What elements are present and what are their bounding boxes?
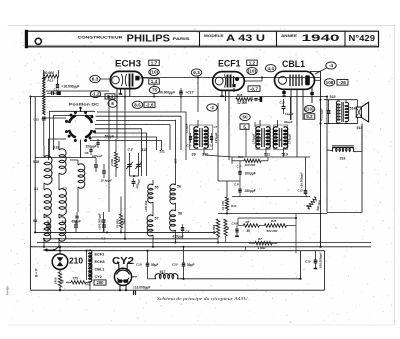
coil 55 <box>148 184 153 203</box>
resistor R10b <box>224 219 227 236</box>
svg-text:C11: C11 <box>257 137 262 141</box>
svg-text:56: 56 <box>177 185 181 189</box>
svg-text:125μμF: 125μμF <box>214 132 218 143</box>
svg-text:C23: C23 <box>208 144 213 148</box>
svg-text:ECH3: ECH3 <box>115 58 141 68</box>
svg-text:(10): (10) <box>150 70 159 75</box>
svg-text:479μμF: 479μμF <box>172 235 185 239</box>
wire <box>34 97 36 233</box>
value box -26 <box>337 80 348 86</box>
svg-text:≡18.000μμF: ≡18.000μμF <box>300 172 304 188</box>
heater dropper wire <box>43 78 45 115</box>
svg-text:(10): (10) <box>248 69 257 74</box>
capacitor C12 <box>56 84 59 86</box>
svg-text:1,2: 1,2 <box>249 60 256 65</box>
svg-text:250μμF: 250μμF <box>245 189 256 193</box>
wire <box>326 97 328 151</box>
svg-text:70 000: 70 000 <box>116 219 120 228</box>
heater winding ECF1 <box>89 250 92 259</box>
svg-text:210: 210 <box>69 257 84 266</box>
resistor 70000 <box>119 214 122 228</box>
svg-text:ECH3: ECH3 <box>95 260 105 264</box>
svg-text:510: 510 <box>282 153 288 157</box>
svg-text:30μμF: 30μμF <box>284 120 293 124</box>
svg-text:S2: S2 <box>63 187 67 191</box>
capacitor 10000uuF <box>102 170 106 172</box>
svg-text:MODELE: MODELE <box>204 34 225 38</box>
output transformer 514 primary <box>336 101 340 123</box>
capacitor <box>46 224 50 226</box>
svg-text:(10): (10) <box>305 107 314 112</box>
svg-text:N°429: N°429 <box>349 34 376 43</box>
wire <box>30 247 32 290</box>
resistor R14 2M <box>114 152 117 168</box>
output transformer 514 secondary <box>345 102 349 121</box>
tube CBL1 anode <box>305 75 310 85</box>
svg-text:10.4μμF: 10.4μμF <box>101 179 112 183</box>
choke 316 <box>332 147 353 151</box>
wire <box>259 120 261 128</box>
svg-text:C.P: C.P <box>237 165 242 169</box>
wire <box>205 155 232 157</box>
capacitor C8 <box>181 227 184 229</box>
wire <box>116 110 118 139</box>
svg-text:R16: R16 <box>237 93 243 97</box>
resistor R10 <box>225 197 228 210</box>
resistor R7 <box>255 241 272 245</box>
svg-text:R7: R7 <box>258 237 262 241</box>
svg-text:C10: C10 <box>277 138 282 142</box>
resistor R13 <box>44 75 59 79</box>
value box 200 <box>94 280 106 285</box>
value box -2,6 <box>144 102 155 108</box>
wire bus <box>31 289 325 291</box>
wire <box>95 129 142 176</box>
wire <box>232 156 310 158</box>
svg-text:510: 510 <box>142 148 148 152</box>
svg-text:R13: R13 <box>48 79 54 83</box>
mains arrow and switch <box>46 249 54 251</box>
wire <box>218 213 327 215</box>
svg-text:75: 75 <box>152 88 158 93</box>
trimmer capacitor <box>127 164 131 166</box>
wire <box>43 70 45 76</box>
wire <box>130 175 139 177</box>
coil S4 <box>59 217 66 241</box>
svg-text:6,3: 6,3 <box>92 77 99 82</box>
wire <box>357 100 359 107</box>
tube ECH3 anode <box>135 76 139 81</box>
value box -0,7 <box>248 86 260 92</box>
tube ECH3 grids <box>122 74 123 86</box>
IF transformer 511 <box>256 125 270 150</box>
capacitor <box>102 224 106 226</box>
svg-text:-4: -4 <box>329 63 334 68</box>
capacitor <box>96 142 99 144</box>
svg-text:514: 514 <box>350 106 356 110</box>
junction dots <box>108 95 110 97</box>
tube ECH3 cathode <box>112 76 120 84</box>
svg-text:CY2: CY2 <box>95 275 102 279</box>
svg-text:PARIS: PARIS <box>173 37 191 41</box>
lamp 210 <box>52 254 68 270</box>
svg-text:55: 55 <box>155 186 159 190</box>
wire <box>302 105 304 120</box>
wire <box>226 181 228 197</box>
wire <box>96 116 182 150</box>
tube CY2 envelope <box>114 268 131 285</box>
heater chain bracket <box>86 251 88 280</box>
wire <box>92 137 157 150</box>
wire <box>327 149 333 152</box>
svg-text:-26: -26 <box>339 80 346 85</box>
capacitor C17 <box>179 90 183 92</box>
title bar frame <box>27 31 379 47</box>
svg-text:32 000: 32 000 <box>237 101 247 105</box>
svg-text:S1: S1 <box>34 187 38 191</box>
capacitor 4000uuF <box>327 110 331 112</box>
value circle 10 <box>149 68 159 75</box>
wire <box>152 180 154 185</box>
wire <box>232 160 244 162</box>
svg-text:S4: S4 <box>62 220 66 224</box>
svg-text:ANNEE: ANNEE <box>281 34 298 38</box>
svg-text:R10: R10 <box>231 204 237 208</box>
svg-text:1,4: 1,4 <box>107 94 114 99</box>
capacitor C13 <box>51 92 53 95</box>
wire <box>148 278 157 280</box>
value circle -4 <box>326 62 336 69</box>
value circle -2 <box>207 104 217 111</box>
wire <box>66 281 71 283</box>
value circle -1,2 <box>90 90 100 97</box>
tube ECH3 pins <box>120 89 122 94</box>
coil S18 <box>44 156 52 185</box>
svg-text:C.9: C.9 <box>101 237 106 241</box>
svg-text:C20: C20 <box>172 262 178 266</box>
wire <box>361 124 363 152</box>
wire <box>324 99 358 101</box>
coil 56 <box>170 184 176 204</box>
wire bus <box>46 250 325 252</box>
wire <box>124 110 126 239</box>
wire <box>94 133 147 176</box>
svg-text:C.3: C.3 <box>128 147 133 151</box>
value box 1,7 <box>149 60 160 65</box>
band switch stem <box>80 108 82 113</box>
band switch rotor <box>69 116 76 124</box>
tube CBL1 cathode <box>279 76 287 84</box>
coil 58 <box>170 210 176 231</box>
coil S1 <box>44 189 51 216</box>
svg-text:CBL1: CBL1 <box>282 59 305 69</box>
svg-text:175μμF: 175μμF <box>252 133 256 144</box>
wire <box>90 141 162 151</box>
resistor R15 <box>264 224 286 228</box>
svg-text:B ≡ P: B ≡ P <box>35 268 39 277</box>
wire <box>197 120 199 128</box>
wire <box>31 96 328 98</box>
wire <box>300 251 302 279</box>
value circle 6,3 <box>191 69 201 76</box>
svg-text:CA5: CA5 <box>232 221 238 225</box>
svg-text:R6: R6 <box>246 220 250 224</box>
IF transformer S9/S10 <box>190 125 213 150</box>
svg-text:50μF: 50μF <box>187 263 194 267</box>
svg-text:10μμF: 10μμF <box>285 112 294 116</box>
wire <box>43 183 45 190</box>
wire <box>324 251 326 291</box>
wire bus <box>31 246 372 248</box>
svg-text:58: 58 <box>178 212 182 216</box>
band switch contacts <box>74 111 77 114</box>
value box 5 <box>240 124 249 129</box>
wire <box>245 128 247 157</box>
coil 57 <box>147 215 153 236</box>
svg-text:-1,2: -1,2 <box>92 92 100 97</box>
capacitor 100.000uuF <box>101 219 105 221</box>
svg-text:≡C17: ≡C17 <box>186 91 194 95</box>
wire <box>153 84 155 87</box>
tube ECF1 anode <box>235 77 239 81</box>
wire <box>353 152 362 213</box>
resistor 775 <box>71 281 86 284</box>
wire <box>101 78 111 80</box>
svg-text:50 000: 50 000 <box>44 71 54 75</box>
wire bus <box>44 238 218 240</box>
svg-text:100μμF: 100μμF <box>86 145 98 149</box>
capacitor 120uuF <box>132 181 136 183</box>
tube ECF1 envelope <box>213 72 245 91</box>
svg-text:980: 980 <box>174 158 178 163</box>
wire <box>310 71 321 73</box>
svg-text:511: 511 <box>264 153 270 157</box>
svg-text:C15: C15 <box>298 189 304 193</box>
heater winding CY2 <box>89 273 92 282</box>
svg-text:RF: RF <box>61 279 65 283</box>
value circle 6,3 <box>90 75 100 82</box>
wire <box>96 120 176 172</box>
wire <box>277 120 279 128</box>
capacitor <box>74 224 78 226</box>
wire bus <box>37 242 371 244</box>
svg-text:108: 108 <box>326 80 334 85</box>
value box 1,4 <box>105 94 115 99</box>
resistor R14b <box>244 159 261 162</box>
wire <box>143 77 321 79</box>
title divider <box>344 32 346 46</box>
wire <box>54 115 94 150</box>
svg-text:50μF: 50μF <box>151 263 158 267</box>
svg-text:-2,6: -2,6 <box>146 102 154 107</box>
svg-text:C.P: C.P <box>234 182 239 186</box>
value circle 8 <box>108 100 117 108</box>
svg-text:50.000μμF: 50.000μμF <box>159 91 175 95</box>
resistor R11 500000 <box>306 196 317 209</box>
title divider <box>199 32 201 46</box>
svg-text:C22: C22 <box>187 144 192 148</box>
svg-text:50μμF: 50μμF <box>105 135 115 139</box>
svg-text:C19: C19 <box>136 262 142 266</box>
value box 5,2 <box>304 114 315 119</box>
svg-text:CONSTRUCTEUR: CONSTRUCTEUR <box>78 35 124 39</box>
svg-text:CBL1: CBL1 <box>95 268 105 272</box>
speaker <box>356 107 361 117</box>
svg-text:39: 39 <box>192 153 196 157</box>
svg-text:1 MΩ: 1 MΩ <box>258 246 266 250</box>
svg-text:50: 50 <box>242 115 248 120</box>
svg-text:Schéma de principe du récepteu: Schéma de principe du récepteur A43U. <box>157 297 249 301</box>
svg-text:A 43 U: A 43 U <box>226 33 265 44</box>
wire <box>30 97 32 247</box>
svg-text:100 000: 100 000 <box>245 163 256 167</box>
wire <box>44 117 66 119</box>
wire <box>296 125 298 157</box>
wire <box>315 79 321 81</box>
capacitor C22 <box>189 136 192 138</box>
wire <box>217 103 219 125</box>
svg-text:5,2: 5,2 <box>306 114 313 119</box>
svg-text:≡16.000μμF: ≡16.000μμF <box>62 84 80 88</box>
wire <box>228 125 230 160</box>
wire bus <box>207 278 301 280</box>
tube CBL1 envelope <box>275 71 315 89</box>
svg-text:10.000: 10.000 <box>212 225 216 234</box>
heater winding CBL1 <box>89 265 92 274</box>
wire <box>97 112 186 160</box>
wire <box>49 139 67 160</box>
svg-text:10 000: 10 000 <box>221 200 225 210</box>
wire <box>218 180 240 182</box>
wire <box>50 111 96 158</box>
svg-text:775: 775 <box>73 276 79 280</box>
svg-text:1,4: 1,4 <box>151 79 158 84</box>
value circle 75 <box>149 86 159 93</box>
value circle 8,5 <box>132 101 142 108</box>
svg-text:≡100.000: ≡100.000 <box>144 200 148 212</box>
capacitor C23 <box>210 136 213 138</box>
capacitor C16 <box>304 190 308 192</box>
capacitor <box>89 149 92 151</box>
svg-text:4.000μμF: 4.000μμF <box>320 108 324 121</box>
svg-text:1,7: 1,7 <box>151 60 158 65</box>
coil S3 <box>44 217 51 241</box>
svg-text:R11: R11 <box>306 204 311 208</box>
wire <box>59 287 61 290</box>
svg-text:50: 50 <box>226 226 230 230</box>
value circle 4,4 <box>266 65 276 72</box>
value box 1,4 <box>149 79 160 84</box>
svg-text:S19: S19 <box>53 146 59 150</box>
svg-text:≡10.000μμF: ≡10.000μμF <box>133 285 151 289</box>
svg-text:PH 429: PH 429 <box>6 286 10 295</box>
coil S19 <box>59 149 66 175</box>
wire <box>43 145 45 157</box>
wire <box>108 97 110 213</box>
title divider <box>276 32 278 46</box>
svg-text:2 MΩ: 2 MΩ <box>110 158 114 166</box>
svg-text:S18: S18 <box>33 160 39 164</box>
tube CY2 plates <box>117 270 130 274</box>
svg-text:C6: C6 <box>85 151 89 155</box>
wire <box>46 90 109 92</box>
coil padder <box>78 164 85 188</box>
svg-text:R14: R14 <box>117 156 121 162</box>
svg-text:175μμF: 175μμF <box>288 133 292 144</box>
wire <box>132 276 137 278</box>
value circle 10 <box>304 105 314 112</box>
svg-text:50: 50 <box>247 229 251 233</box>
tube CBL1 grids <box>289 75 291 87</box>
svg-text:PHILIPS: PHILIPS <box>127 33 171 45</box>
capacitor 100uuF <box>94 164 98 166</box>
wire <box>238 217 296 219</box>
wire <box>95 125 170 150</box>
svg-text:C18: C18 <box>305 259 311 263</box>
svg-text:115μμF: 115μμF <box>185 123 189 133</box>
heater winding ECH3 <box>89 258 92 267</box>
wire <box>214 225 219 227</box>
value circle 10 <box>247 67 257 74</box>
svg-text:100.000μμF: 100.000μμF <box>319 252 323 268</box>
value circle 50 <box>240 113 250 120</box>
wire <box>59 247 61 254</box>
svg-text:6,3: 6,3 <box>193 70 200 75</box>
resistor 32000 <box>236 98 252 101</box>
tube ECF1 cathode <box>215 77 223 85</box>
wire <box>324 123 358 125</box>
svg-text:C15: C15 <box>34 117 40 121</box>
svg-text:515: 515 <box>330 95 336 99</box>
tube CY2 bottom pins <box>119 285 121 290</box>
capacitor C15 <box>42 116 46 118</box>
wire <box>320 71 322 247</box>
wire <box>180 88 182 91</box>
svg-text:316: 316 <box>340 157 346 161</box>
svg-text:500 000: 500 000 <box>267 229 278 233</box>
tube CBL1 pins <box>283 89 285 96</box>
svg-text:C7: C7 <box>214 125 218 129</box>
wire bus <box>35 157 96 159</box>
tube ECH3 envelope <box>110 71 142 88</box>
wire <box>217 237 219 243</box>
svg-text:310: 310 <box>202 153 208 157</box>
wire <box>326 150 328 213</box>
svg-text:1450: 1450 <box>54 277 58 284</box>
hole punch ring <box>35 38 41 44</box>
output transformer core <box>341 102 343 122</box>
svg-text:≡100.000μμF: ≡100.000μμF <box>98 213 102 230</box>
resistor 1450 <box>58 272 61 287</box>
wire <box>232 196 310 198</box>
coil S2 <box>59 189 66 216</box>
wire <box>290 97 292 121</box>
wire plate <box>140 77 149 79</box>
trimmer capacitor <box>136 164 140 166</box>
resistor R6 <box>243 224 259 228</box>
wire <box>152 202 154 216</box>
wire <box>120 197 122 215</box>
wire <box>115 139 117 152</box>
svg-text:ECF1: ECF1 <box>218 59 241 69</box>
svg-text:CY2: CY2 <box>112 256 134 267</box>
svg-text:-0,7: -0,7 <box>250 86 258 91</box>
value box 1,2 <box>247 60 258 65</box>
svg-text:S3: S3 <box>33 219 37 223</box>
svg-text:ECF1: ECF1 <box>95 253 105 257</box>
IF transformer 510 <box>274 125 288 150</box>
svg-text:521: 521 <box>160 149 166 153</box>
